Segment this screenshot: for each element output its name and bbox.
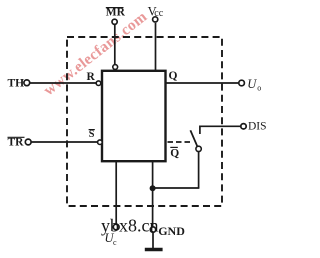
wire DIS horizontal — [200, 125, 241, 127]
junction dot — [150, 185, 156, 191]
svg-text:ybx8.cn: ybx8.cn — [101, 215, 159, 235]
svg-text:TH: TH — [8, 78, 25, 90]
svg-text:MR: MR — [106, 7, 126, 19]
svg-text:o: o — [257, 84, 261, 93]
svg-text:U: U — [247, 77, 257, 91]
wire DIS corner stub — [199, 126, 201, 135]
svg-text:Q: Q — [170, 148, 179, 160]
wire TR to S — [31, 141, 97, 143]
dashed control wire Qbar to switch — [168, 141, 193, 143]
inversion bubble MR pin — [113, 65, 118, 70]
ground bar — [145, 248, 163, 251]
svg-text:Q: Q — [169, 70, 178, 82]
wire Vcc to box — [155, 23, 157, 70]
terminal MR — [112, 19, 117, 24]
wire Uc vertical — [115, 161, 117, 224]
dashed boundary box — [67, 37, 222, 206]
terminal GND — [150, 227, 155, 232]
terminal DIS — [241, 124, 246, 129]
wire switch down — [198, 152, 200, 188]
wire switch rail to junction — [153, 187, 200, 189]
svg-text:S: S — [89, 129, 95, 140]
terminal TR — [25, 139, 31, 145]
switch contact circle — [196, 146, 201, 151]
svg-text:GND: GND — [158, 224, 185, 238]
flip-flop body U1 — [102, 71, 166, 161]
inversion bubble S pin — [98, 140, 103, 145]
wire GND vertical — [152, 161, 154, 227]
inversion bubble R pin — [96, 81, 101, 86]
terminal Uc — [113, 224, 119, 230]
wire MR to box — [114, 25, 116, 65]
svg-text:R: R — [87, 71, 96, 83]
switch arm — [190, 130, 197, 146]
wire TH to R — [30, 82, 96, 84]
wire GND to ground — [152, 232, 154, 248]
terminal TH — [24, 80, 30, 86]
svg-text:c: c — [113, 238, 117, 247]
svg-text:cc: cc — [154, 8, 163, 19]
terminal Uo — [239, 80, 245, 86]
terminal Vcc — [153, 17, 158, 22]
svg-text:DIS: DIS — [248, 121, 267, 133]
wire Q to Uo — [166, 82, 239, 84]
svg-text:TR: TR — [8, 137, 25, 149]
